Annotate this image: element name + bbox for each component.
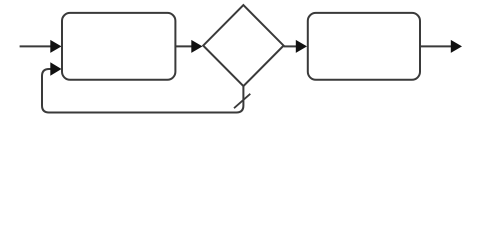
wire: task1 to gateway — [175, 45, 192, 47]
wire: feedback loop from gateway bottom to task1 — [42, 69, 243, 113]
arrowhead into gateway — [191, 40, 202, 53]
feedback arrowhead into task 1 — [50, 62, 61, 75]
gateway diamond — [203, 5, 283, 86]
wire: output arrow line — [420, 45, 452, 47]
arrowhead into task 2 — [296, 40, 307, 53]
task box 1 — [62, 13, 175, 80]
task box 2 — [308, 13, 420, 80]
wire: gateway to task2 — [284, 45, 297, 47]
wire: input arrow line — [20, 45, 52, 47]
default-flow slash on feedback wire — [234, 94, 250, 108]
output arrowhead — [451, 40, 462, 53]
arrowhead into task 1 — [50, 40, 61, 53]
